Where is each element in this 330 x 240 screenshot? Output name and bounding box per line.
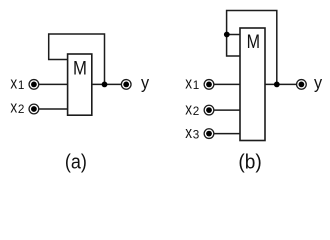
caption (b) xyxy=(238,150,261,173)
wire x2 to box (a) xyxy=(39,108,68,110)
svg-text:2: 2 xyxy=(18,103,25,116)
output terminal y (b) xyxy=(297,80,307,90)
machine box M (b) xyxy=(240,28,265,141)
feedback branch stub (b) xyxy=(227,34,240,36)
wire x1 to box (b) xyxy=(214,83,240,85)
svg-text:x: x xyxy=(185,124,192,142)
label M (a) xyxy=(73,57,87,79)
feedback junction node (b) xyxy=(274,82,280,88)
output terminal y (a) xyxy=(121,80,131,90)
caption (a) xyxy=(65,150,87,173)
svg-text:x: x xyxy=(185,75,192,93)
label y (b) xyxy=(314,73,322,93)
svg-text:1: 1 xyxy=(18,79,25,92)
output wire (b) xyxy=(265,83,297,85)
label x2 (a) xyxy=(10,99,24,117)
label x1 (a) xyxy=(10,75,24,93)
svg-text:M: M xyxy=(73,57,87,79)
svg-text:(b): (b) xyxy=(238,150,261,173)
input terminal x2 (a) xyxy=(29,104,39,114)
svg-text:(a): (a) xyxy=(65,150,87,173)
label y (a) xyxy=(141,73,149,93)
feedback loop wire (b): node up, across top, down left side xyxy=(227,11,277,85)
input terminal x1 (b) xyxy=(204,80,214,90)
machine box M (a) xyxy=(68,54,92,115)
wire x3 to box (b) xyxy=(214,133,240,135)
label x2 (b) xyxy=(185,100,199,118)
svg-text:M: M xyxy=(247,31,260,53)
svg-text:3: 3 xyxy=(193,129,200,142)
svg-text:x: x xyxy=(10,99,17,117)
wire x1 to box (a) xyxy=(39,83,68,85)
input terminal x3 (b) xyxy=(204,129,214,139)
label M (b) xyxy=(247,31,260,53)
svg-text:x: x xyxy=(185,100,192,118)
label x1 (b) xyxy=(185,75,199,93)
svg-text:2: 2 xyxy=(193,105,200,118)
svg-text:y: y xyxy=(314,73,322,93)
wire x2 to box (b) xyxy=(214,109,240,111)
label x3 (b) xyxy=(185,124,199,142)
output wire (a) xyxy=(92,83,122,85)
svg-text:x: x xyxy=(10,75,17,93)
svg-text:1: 1 xyxy=(193,79,200,92)
input terminal x2 (b) xyxy=(204,105,214,115)
input terminal x1 (a) xyxy=(29,80,39,90)
feedback loop wire (a): node up, across top, down, into box xyxy=(49,34,105,84)
feedback branch junction dot (b) xyxy=(224,32,230,38)
svg-text:y: y xyxy=(141,73,149,93)
feedback junction node (a) xyxy=(102,82,108,88)
